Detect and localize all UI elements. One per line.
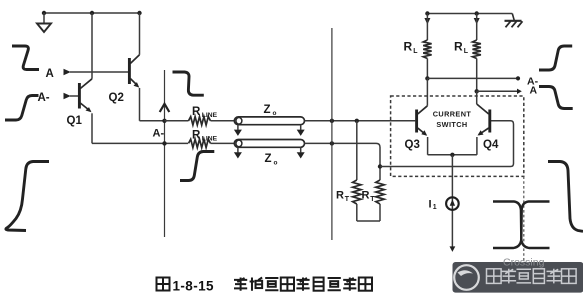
svg-text:T: T: [345, 196, 350, 203]
svg-text:L: L: [464, 48, 469, 55]
svg-text:R: R: [192, 106, 201, 118]
svg-text:A: A: [46, 68, 54, 80]
svg-text:R: R: [192, 129, 201, 141]
svg-text:1: 1: [433, 204, 437, 211]
svg-text:R: R: [336, 189, 344, 201]
svg-text:LINE: LINE: [202, 112, 218, 119]
svg-text:Z: Z: [265, 153, 272, 165]
svg-text:T: T: [370, 196, 375, 203]
svg-text:Crossing: Crossing: [503, 257, 545, 269]
svg-text:A-: A-: [38, 92, 50, 104]
svg-text:Q3: Q3: [405, 139, 420, 151]
svg-text:A-: A-: [153, 128, 165, 140]
svg-text:1-8-15: 1-8-15: [173, 279, 215, 294]
svg-text:o: o: [274, 159, 278, 166]
svg-text:o: o: [273, 110, 277, 117]
svg-text:Q2: Q2: [109, 92, 124, 104]
svg-text:SWITCH: SWITCH: [436, 120, 467, 129]
svg-text:LINE: LINE: [202, 136, 218, 143]
svg-text:R: R: [362, 189, 370, 201]
svg-text:I: I: [429, 198, 432, 210]
svg-text:L: L: [413, 48, 418, 55]
svg-text:R: R: [404, 39, 413, 53]
svg-text:Q4: Q4: [483, 139, 499, 151]
svg-text:R: R: [454, 39, 463, 53]
svg-text:Z: Z: [264, 104, 271, 116]
svg-text:A: A: [530, 85, 538, 97]
svg-text:Q1: Q1: [67, 115, 83, 127]
svg-text:CURRENT: CURRENT: [433, 109, 472, 118]
